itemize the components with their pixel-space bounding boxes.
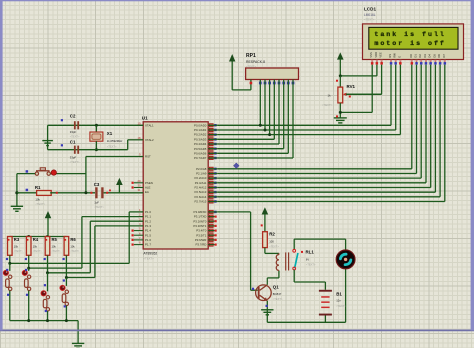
svg-text:P3.5/T1: P3.5/T1 — [196, 233, 207, 237]
svg-text:P1.7: P1.7 — [145, 243, 151, 247]
svg-text:P3.3/INT1: P3.3/INT1 — [193, 224, 206, 228]
svg-text:10k: 10k — [35, 198, 40, 202]
svg-text:100: 100 — [269, 239, 274, 243]
svg-text:D2: D2 — [418, 54, 422, 58]
svg-text:AT89S52: AT89S52 — [143, 251, 157, 255]
svg-text:P2.2/A10: P2.2/A10 — [194, 176, 206, 180]
svg-text:VEE: VEE — [379, 52, 383, 58]
svg-text:P2.0/A8: P2.0/A8 — [196, 167, 207, 171]
svg-text:P2.4/A12: P2.4/A12 — [194, 186, 206, 190]
svg-text:E: E — [397, 56, 401, 58]
svg-text:LCD1: LCD1 — [364, 7, 376, 12]
svg-text:X1: X1 — [107, 131, 113, 136]
svg-text:10k: 10k — [52, 244, 57, 248]
svg-text:P2.7/A15: P2.7/A15 — [194, 200, 206, 204]
svg-text:LM016L: LM016L — [364, 13, 376, 17]
svg-text:D3: D3 — [423, 54, 427, 58]
svg-text:RV1: RV1 — [347, 84, 356, 89]
svg-text:P0.1/AD1: P0.1/AD1 — [194, 128, 207, 132]
svg-text:11.0592MHz: 11.0592MHz — [107, 139, 123, 143]
svg-text:P1.3: P1.3 — [145, 224, 151, 228]
svg-text:B1: B1 — [336, 291, 342, 296]
svg-text:C1: C1 — [70, 140, 76, 145]
svg-text:VSS: VSS — [369, 52, 373, 58]
svg-text:P2.1/A9: P2.1/A9 — [196, 172, 207, 176]
svg-text:<TEXT>: <TEXT> — [70, 160, 80, 164]
svg-text:D0: D0 — [409, 54, 413, 58]
svg-text:<TEXT>: <TEXT> — [306, 263, 316, 267]
svg-text:<TEXT>: <TEXT> — [35, 202, 45, 206]
svg-text:<TEXT>: <TEXT> — [70, 250, 80, 253]
svg-text:R1: R1 — [35, 185, 41, 190]
svg-text:D4: D4 — [428, 54, 432, 58]
svg-text:<TEXT>: <TEXT> — [33, 250, 43, 253]
svg-text:P2.6/A14: P2.6/A14 — [194, 195, 206, 199]
svg-text:XTAL2: XTAL2 — [145, 138, 154, 142]
svg-text:tank is full: tank is full — [374, 31, 445, 38]
svg-text:R3: R3 — [14, 237, 20, 242]
svg-text:RW: RW — [393, 53, 397, 58]
svg-text:U1: U1 — [142, 115, 148, 120]
svg-text:R2: R2 — [269, 232, 275, 237]
svg-text:EA: EA — [145, 190, 149, 194]
svg-text:P0.2/AD2: P0.2/AD2 — [194, 133, 207, 137]
svg-text:<TEXT>: <TEXT> — [70, 134, 80, 138]
svg-text:RESPACK-8: RESPACK-8 — [246, 60, 265, 64]
svg-text:P1.1: P1.1 — [145, 215, 151, 219]
svg-text:Q1: Q1 — [273, 285, 279, 290]
svg-text:P1.4: P1.4 — [145, 229, 151, 233]
svg-text:<TEXT>: <TEXT> — [52, 250, 62, 253]
svg-text:P3.7/RD: P3.7/RD — [195, 243, 206, 247]
svg-text:P3.2/INT0: P3.2/INT0 — [193, 219, 206, 223]
svg-text:P3.6/WR: P3.6/WR — [195, 238, 207, 242]
svg-text:R5: R5 — [52, 237, 58, 242]
svg-text:BC847: BC847 — [273, 292, 282, 296]
svg-text:RS: RS — [388, 54, 392, 58]
svg-text:RP1: RP1 — [246, 53, 256, 59]
svg-text:P3.4/T0: P3.4/T0 — [196, 229, 207, 233]
svg-text:VDD: VDD — [374, 52, 378, 58]
svg-text:D6: D6 — [437, 54, 441, 58]
svg-text:33pF: 33pF — [70, 156, 77, 160]
svg-text:D1: D1 — [414, 54, 418, 58]
svg-text:1k: 1k — [328, 93, 332, 97]
svg-text:33pF: 33pF — [70, 130, 77, 134]
svg-text:<TEXT>: <TEXT> — [273, 297, 283, 301]
svg-text:10k: 10k — [33, 244, 38, 248]
svg-text:6V: 6V — [306, 257, 309, 261]
svg-text:RST: RST — [145, 155, 151, 159]
svg-text:P0.3/AD3: P0.3/AD3 — [194, 137, 207, 141]
svg-text:D7: D7 — [442, 54, 446, 58]
svg-text:XTAL1: XTAL1 — [145, 123, 154, 127]
svg-text:<TEXT>: <TEXT> — [143, 257, 154, 261]
svg-text:P0.5/AD5: P0.5/AD5 — [194, 147, 207, 151]
svg-text:<TEXT>: <TEXT> — [322, 103, 333, 107]
svg-text:<TEXT>: <TEXT> — [94, 205, 104, 209]
svg-text:P2.3/A11: P2.3/A11 — [195, 181, 207, 185]
svg-text:P0.4/AD4: P0.4/AD4 — [194, 142, 207, 146]
svg-text:C3: C3 — [94, 182, 100, 187]
svg-text:P3.1/TXD: P3.1/TXD — [194, 215, 207, 219]
svg-text:<TEXT>: <TEXT> — [269, 245, 279, 249]
svg-text:10k: 10k — [14, 244, 19, 248]
svg-text:C2: C2 — [70, 114, 76, 119]
svg-text:<TEXT>: <TEXT> — [364, 18, 375, 22]
svg-text:P1.2: P1.2 — [145, 219, 151, 223]
svg-text:P3.0/RXD: P3.0/RXD — [194, 210, 207, 214]
svg-text:motor is off: motor is off — [374, 40, 445, 47]
svg-text:D5: D5 — [432, 54, 436, 58]
svg-text:P0.0/AD0: P0.0/AD0 — [194, 123, 207, 127]
svg-text:PSEN: PSEN — [145, 181, 153, 185]
svg-text:<TEXT>: <TEXT> — [336, 304, 346, 308]
svg-text:R6: R6 — [70, 237, 76, 242]
svg-text:<TEXT>: <TEXT> — [246, 65, 256, 69]
svg-text:P1.0: P1.0 — [145, 210, 151, 214]
svg-text:<TEXT>: <TEXT> — [14, 250, 24, 253]
svg-text:12v: 12v — [336, 299, 341, 303]
svg-text:ALE: ALE — [145, 186, 151, 190]
svg-text:P2.5/A13: P2.5/A13 — [194, 190, 206, 194]
svg-text:P0.6/AD6: P0.6/AD6 — [194, 151, 207, 155]
svg-text:1uF: 1uF — [94, 200, 99, 204]
svg-text:RL1: RL1 — [306, 250, 315, 255]
svg-text:P1.5: P1.5 — [145, 233, 151, 237]
svg-text:P0.7/AD7: P0.7/AD7 — [194, 156, 207, 160]
svg-text:10k: 10k — [70, 244, 75, 248]
svg-text:31: 31 — [137, 188, 141, 192]
svg-text:<TEXT>: <TEXT> — [107, 145, 117, 149]
svg-text:R4: R4 — [33, 237, 39, 242]
svg-text:P1.6: P1.6 — [145, 238, 151, 242]
